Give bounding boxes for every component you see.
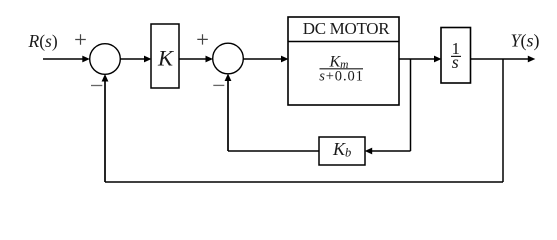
wire K to summer S2 bbox=[179, 58, 208, 60]
wire outer feedback bottom bbox=[105, 181, 503, 183]
node branch to Kb feedback bbox=[410, 59, 412, 151]
summing junction S1 bbox=[90, 44, 121, 75]
wire inner feedback up into S2 bbox=[227, 80, 229, 152]
wire S2 to DC MOTOR block bbox=[243, 58, 283, 60]
svg-text:s: s bbox=[452, 52, 459, 72]
svg-text:R(s): R(s) bbox=[28, 31, 58, 51]
wire inner feedback into Kb bbox=[372, 150, 411, 152]
svg-text:s+0.01: s+0.01 bbox=[319, 68, 364, 84]
svg-text:K: K bbox=[157, 45, 174, 70]
feedback gain block Kb bbox=[319, 137, 365, 165]
wire outer feedback branch down bbox=[502, 59, 504, 182]
wire integrator to output Y(s) bbox=[471, 58, 531, 60]
wire outer feedback up into S1 bbox=[104, 80, 106, 182]
gain block K bbox=[151, 24, 179, 88]
wire S1 to gain K bbox=[120, 58, 146, 60]
svg-text:Y(s): Y(s) bbox=[511, 31, 540, 52]
summing junction S2 bbox=[213, 43, 244, 74]
integrator block 1/s bbox=[441, 28, 471, 84]
plus sign at summer S2 bbox=[197, 34, 208, 44]
svg-text:DC MOTOR: DC MOTOR bbox=[303, 19, 391, 38]
wire DC MOTOR to integrator bbox=[399, 58, 436, 60]
block U1 DC MOTOR bbox=[288, 17, 399, 105]
minus sign at summer S2 bbox=[213, 84, 224, 86]
wire Kb to S2 bbox=[228, 150, 319, 152]
minus sign at summer S1 bbox=[91, 85, 102, 87]
plus sign at summer S1 bbox=[75, 34, 86, 45]
wire input R(s) to summer S1 bbox=[43, 58, 84, 60]
